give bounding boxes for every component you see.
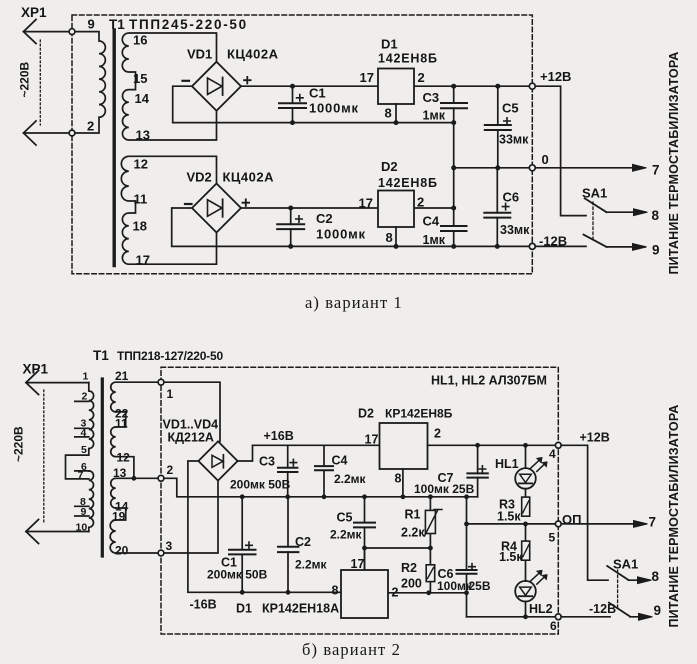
svg-text:1000мк: 1000мк <box>316 227 366 242</box>
svg-text:КР142ЕН18А: КР142ЕН18А <box>262 602 339 616</box>
T1 v2 primary winding group 1 (pins 1-5) <box>89 383 94 449</box>
bridge rectifier VD1..VD4 <box>198 441 237 480</box>
regulator D1 box <box>378 69 414 105</box>
wire +12V to switch SA1 pole 1 <box>535 86 586 215</box>
XP1 contact arrow top <box>24 20 37 44</box>
box terminal 1 <box>158 379 164 385</box>
svg-text:18: 18 <box>133 219 147 234</box>
HL2 emission arrows <box>531 571 547 584</box>
T1 core <box>112 30 115 266</box>
SA1 gang dashed link <box>592 202 594 240</box>
svg-text:13: 13 <box>136 128 150 143</box>
T1 v2 secondary tap jog 12-13 <box>116 457 134 479</box>
wire pin 13 line to terminal 2 <box>116 477 158 479</box>
svg-text:а) вариант 1: а) вариант 1 <box>305 293 403 312</box>
svg-text:С1: С1 <box>309 86 326 101</box>
R2 power slash <box>428 568 434 579</box>
R3 power slash <box>523 501 529 513</box>
capacitor C6 (v2) <box>466 497 468 617</box>
svg-text:16: 16 <box>133 33 147 48</box>
plus mark C6 <box>502 203 508 209</box>
svg-text:2: 2 <box>434 427 441 441</box>
capacitor C4 <box>453 208 455 246</box>
svg-text:С4: С4 <box>423 214 440 229</box>
T1 v2 secondary winding D (pins 19-20) <box>110 520 158 553</box>
regulator D1 box (v2) <box>341 570 388 618</box>
LED HL1 <box>525 445 527 497</box>
D1 pin 8 wire <box>395 104 397 123</box>
XP1 contact arrow top (v2) <box>26 371 39 395</box>
T1 v2 primary winding group 2 (pins 6-10) <box>89 471 94 532</box>
svg-text:8: 8 <box>652 569 660 584</box>
SA1 pole 1 blade <box>585 198 607 212</box>
svg-text:5: 5 <box>549 531 556 545</box>
plus mark C1 <box>297 95 303 101</box>
svg-text:С6: С6 <box>503 190 520 205</box>
svg-text:2.2мк: 2.2мк <box>330 528 363 542</box>
wire terminal 2 to common rail <box>164 478 478 497</box>
regulator D2 box <box>378 191 414 228</box>
XP1 contact arrow bottom (v2) <box>26 520 39 544</box>
svg-text:~220В: ~220В <box>18 61 32 97</box>
regulator D2 box (v2) <box>380 423 428 469</box>
plus mark C5 <box>504 118 510 124</box>
T1 v2 secondary jog 14-19 <box>116 508 126 520</box>
svg-text:+12В: +12В <box>580 431 610 445</box>
svg-text:ТПП245-220-50: ТПП245-220-50 <box>129 17 248 32</box>
svg-text:8: 8 <box>385 106 392 121</box>
wire: VD2 plus rail to D2 <box>241 207 454 209</box>
svg-text:200: 200 <box>401 577 422 591</box>
resistor R2 <box>429 548 431 593</box>
capacitor C2 (v2) <box>287 497 289 593</box>
svg-text:С2: С2 <box>316 211 333 226</box>
plus mark C3 v2 <box>290 459 296 465</box>
svg-text:С2: С2 <box>295 535 311 549</box>
arrowhead 7 <box>633 164 647 171</box>
wire XP1 top to primary pin 1 <box>26 382 89 384</box>
wire: VD1 plus rail to D1 and +12V terminal <box>241 85 530 87</box>
plus mark C6 v2 <box>469 564 475 570</box>
svg-text:С3: С3 <box>423 90 440 105</box>
svg-text:10: 10 <box>76 521 88 533</box>
svg-text:Т1: Т1 <box>93 348 109 363</box>
T1 v2 secondary jog 22-11 <box>116 412 126 427</box>
T1 primary winding <box>75 32 105 133</box>
svg-text:142ЕН8Б: 142ЕН8Б <box>378 176 438 190</box>
R4 power slash <box>523 545 529 557</box>
primary tap stub pin 3 <box>75 427 89 429</box>
svg-text:7: 7 <box>78 470 84 482</box>
svg-text:С3: С3 <box>259 455 275 469</box>
terminal circle pin 9 <box>69 29 75 35</box>
svg-text:ПИТАНИЕ ТЕРМОСТАБИЛИЗАТОРА: ПИТАНИЕ ТЕРМОСТАБИЛИЗАТОРА <box>667 51 681 274</box>
T1 v2 primary series jog 5-6 <box>66 449 89 479</box>
svg-text:2: 2 <box>87 119 94 134</box>
svg-text:КЦ402А: КЦ402А <box>227 47 279 62</box>
D1 pin 2 output rail <box>388 592 467 594</box>
svg-text:1мк: 1мк <box>423 109 446 123</box>
T1 secondary winding I (pins 16-13) <box>122 33 216 140</box>
resistor R3 <box>522 497 530 516</box>
SA1 pole 2 blade <box>584 235 607 247</box>
svg-text:21: 21 <box>115 369 129 383</box>
capacitor C3 (v2) <box>287 445 289 497</box>
svg-text:17: 17 <box>136 253 150 268</box>
svg-text:С5: С5 <box>337 511 353 525</box>
svg-text:б) вариант 2: б) вариант 2 <box>302 640 401 659</box>
SA1 pole 1 blade v2 <box>607 566 628 580</box>
capacitor C3 <box>453 86 455 122</box>
output terminal -12V <box>529 243 535 249</box>
svg-text:13: 13 <box>113 466 127 480</box>
capacitor C5 <box>497 86 499 168</box>
svg-text:2.2мк: 2.2мк <box>295 558 328 572</box>
primary tap stub pin 6 <box>75 470 89 472</box>
svg-text:9: 9 <box>81 506 87 518</box>
D1 pin 17 wire down <box>364 548 366 570</box>
svg-text:12: 12 <box>134 157 148 172</box>
svg-text:17: 17 <box>359 196 373 211</box>
T1 v2 secondary winding B (pins 11-12) <box>111 427 116 457</box>
svg-text:2: 2 <box>417 195 424 210</box>
svg-text:8: 8 <box>386 230 393 245</box>
svg-text:R1: R1 <box>405 508 421 522</box>
dotted link between XP1 contacts <box>39 40 41 125</box>
box terminal 4 (+12V) <box>555 442 561 448</box>
svg-text:17: 17 <box>360 70 374 85</box>
svg-text:VD1..VD4: VD1..VD4 <box>163 418 219 432</box>
svg-text:2: 2 <box>167 463 174 477</box>
svg-text:25В: 25В <box>469 579 491 593</box>
svg-text:8: 8 <box>332 584 339 598</box>
capacitor C4 (v2) <box>323 445 325 497</box>
svg-text:19: 19 <box>112 510 126 524</box>
svg-text:9: 9 <box>652 243 660 258</box>
T1 v2 secondary winding A (pins 21-22) <box>111 382 161 412</box>
svg-text:7: 7 <box>649 515 657 530</box>
svg-text:VD1: VD1 <box>187 47 212 62</box>
wire bridge plus up to +16V rail <box>238 445 380 461</box>
svg-text:4: 4 <box>81 427 87 439</box>
dotted link between XP1 contacts (v2) <box>43 390 45 524</box>
svg-text:1000мк: 1000мк <box>309 101 359 116</box>
0 rail wire <box>454 167 530 169</box>
svg-text:8: 8 <box>652 208 660 223</box>
svg-text:2: 2 <box>82 391 88 403</box>
box terminal 2 <box>158 475 164 481</box>
svg-text:12: 12 <box>117 451 131 465</box>
svg-text:2: 2 <box>418 70 425 85</box>
VD1 internal diode <box>208 78 223 95</box>
wire XP1 bottom to terminal 2 <box>24 132 70 134</box>
svg-text:11: 11 <box>134 192 148 207</box>
primary tap stub pin 9 <box>75 515 89 517</box>
wire terminal 1 to bridge top <box>164 382 220 441</box>
wire XP1 bottom to primary pin 10 <box>26 531 89 533</box>
capacitor C7 (v2) <box>477 445 479 497</box>
svg-text:D1: D1 <box>381 37 398 52</box>
svg-text:1: 1 <box>167 387 174 401</box>
wire +12V to SA1 pole 1 (v2) <box>561 445 608 580</box>
plus mark C7 v2 <box>479 466 485 472</box>
svg-text:HL1, HL2 АЛ307БМ: HL1, HL2 АЛ307БМ <box>431 374 547 388</box>
svg-text:0: 0 <box>542 152 549 167</box>
SA1 pole 1 output to arrow 8 v2 <box>629 579 650 581</box>
svg-text:XP1: XP1 <box>21 5 47 20</box>
svg-text:D2: D2 <box>381 159 398 174</box>
svg-text:D1: D1 <box>236 602 252 616</box>
wire: VD1 minus to lower rail ch1 <box>173 86 454 122</box>
wire ОП to arrow 7 (v2) <box>561 523 645 525</box>
svg-text:17: 17 <box>351 557 365 571</box>
wire -12V terminal to SA1 pole 2 v2 <box>561 616 610 618</box>
resistor R1 (trimmer) <box>429 497 431 548</box>
bridge internal diode <box>212 455 223 467</box>
svg-text:КЦ402А: КЦ402А <box>223 170 275 185</box>
ОП (reference) rail <box>467 523 556 525</box>
wire terminal 3 to bridge bottom <box>164 481 218 553</box>
svg-text:9: 9 <box>88 17 95 32</box>
XP1 contact arrow bottom <box>24 121 37 145</box>
svg-text:4: 4 <box>549 447 556 461</box>
svg-text:11: 11 <box>115 417 128 431</box>
svg-text:+16В: +16В <box>264 429 294 443</box>
svg-text:14: 14 <box>135 91 150 106</box>
SA1 pole 2 blade v2 <box>609 603 630 617</box>
LED HL2 <box>525 602 527 617</box>
svg-text:3: 3 <box>166 539 173 553</box>
HL1 emission arrows <box>531 459 547 472</box>
resistor R4 <box>525 524 527 581</box>
output terminal +12V <box>529 83 535 89</box>
wire bridge minus to -16V rail <box>188 461 341 592</box>
dashed enclosure variant 2 <box>161 367 558 634</box>
svg-text:8: 8 <box>395 472 402 486</box>
svg-text:С5: С5 <box>502 101 519 116</box>
primary tap stub pin 4 <box>75 436 89 438</box>
svg-text:200мк 50В: 200мк 50В <box>207 568 268 582</box>
wire XP1 top to terminal 9 <box>24 31 70 33</box>
svg-text:+12В: +12В <box>540 69 571 84</box>
box terminal 5 (ОП) <box>555 521 561 527</box>
box terminal 3 <box>158 550 164 556</box>
svg-text:1мк: 1мк <box>423 233 446 247</box>
svg-text:КД212А: КД212А <box>168 431 214 445</box>
junction dots variant 1 <box>288 84 500 249</box>
capacitor C1 <box>292 86 294 122</box>
box terminal 6 (-12V) <box>555 614 561 620</box>
R1 trimmer arrow <box>425 510 443 537</box>
output terminal 0 <box>529 165 535 171</box>
plus mark C1 v2 <box>246 542 252 548</box>
bridge rectifier VD2 <box>192 184 241 233</box>
T1 secondary winding II (pins 12-17) <box>121 156 216 264</box>
svg-text:-16В: -16В <box>190 598 217 612</box>
VD2 internal diode <box>208 200 223 217</box>
capacitor C1 (v2) <box>241 497 243 593</box>
svg-text:~220В: ~220В <box>12 426 26 462</box>
primary tap stub pin 8 <box>75 505 89 507</box>
minus mark VD2 <box>185 203 192 205</box>
svg-text:VD2: VD2 <box>187 170 212 185</box>
primary tap stub pin 2 <box>75 400 89 402</box>
SA1 pole 2 output wire to arrow 9 <box>607 246 646 248</box>
svg-text:Т1: Т1 <box>109 17 125 32</box>
svg-text:D2: D2 <box>358 407 374 421</box>
dashed enclosure variant 1 <box>72 15 532 274</box>
D2 pin 8 wire v2 <box>402 469 404 497</box>
svg-text:142ЕН8Б: 142ЕН8Б <box>378 52 438 66</box>
SA1 pole 1 output wire to arrow 8 <box>607 211 646 213</box>
capacitor C5 (v2) <box>364 497 366 570</box>
svg-text:HL1: HL1 <box>495 457 519 471</box>
svg-text:ПИТАНИЕ ТЕРМОСТАБИЛИЗАТОРА: ПИТАНИЕ ТЕРМОСТАБИЛИЗАТОРА <box>667 404 681 627</box>
svg-text:7: 7 <box>652 163 660 178</box>
bridge rectifier VD1 <box>192 62 241 111</box>
-12V output rail <box>467 616 556 618</box>
svg-text:20: 20 <box>115 544 129 558</box>
svg-text:HL2: HL2 <box>529 602 553 616</box>
svg-text:2.2мк: 2.2мк <box>334 472 367 486</box>
svg-text:33мк: 33мк <box>499 133 529 147</box>
svg-text:6: 6 <box>550 619 557 633</box>
SA1 gang dashed link v2 <box>617 570 619 610</box>
svg-text:1: 1 <box>83 371 89 383</box>
D2 pin 8 wire <box>395 227 397 246</box>
svg-text:17: 17 <box>365 433 379 447</box>
T1 core (v2) <box>101 379 104 556</box>
plus mark VD2 <box>243 199 250 206</box>
wire: VD2 minus to -12V rail <box>172 208 530 246</box>
svg-text:1.5к: 1.5к <box>497 510 521 524</box>
terminal circle pin 2 <box>69 130 75 136</box>
wire: junction column C3 to 0 rail and D2 output <box>453 123 455 208</box>
D2 output rail to +12V terminal <box>428 444 556 446</box>
wire 0 to arrow 7 <box>535 167 644 169</box>
T1 v2 secondary winding C (pins 13-14) <box>111 478 116 508</box>
svg-text:ТПП218-127/220-50: ТПП218-127/220-50 <box>117 349 223 363</box>
svg-text:R2: R2 <box>401 561 417 575</box>
svg-text:15: 15 <box>133 71 147 86</box>
link R1/R2 junction to D1 pin 17 via C5 node <box>365 547 431 549</box>
svg-text:5: 5 <box>81 444 87 456</box>
minus mark VD1 <box>183 80 190 82</box>
capacitor C6 <box>496 168 498 247</box>
svg-text:200мк 50В: 200мк 50В <box>230 478 291 492</box>
svg-text:33мк: 33мк <box>500 223 530 237</box>
svg-text:1.5к: 1.5к <box>499 550 523 564</box>
wire -12V to switch SA1 pole 2 <box>535 245 586 247</box>
svg-text:SA1: SA1 <box>613 557 638 572</box>
junction dots variant 2 <box>132 443 528 619</box>
svg-text:9: 9 <box>654 603 662 618</box>
plus mark C2 <box>296 216 302 222</box>
svg-text:2.2к: 2.2к <box>401 526 425 540</box>
svg-text:100мк 25В: 100мк 25В <box>414 482 475 496</box>
plus mark VD1 <box>244 77 251 84</box>
svg-text:С4: С4 <box>332 454 348 468</box>
SA1 pole 2 output to arrow 9 v2 <box>630 616 650 618</box>
svg-text:КР142ЕН8Б: КР142ЕН8Б <box>385 407 453 421</box>
capacitor C2 <box>290 208 292 246</box>
